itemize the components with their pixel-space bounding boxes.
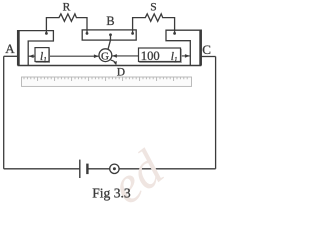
svg-text:B: B <box>106 14 114 28</box>
svg-text:A: A <box>5 41 15 56</box>
wire node A lead <box>4 55 18 57</box>
label box 100-l1 (shadow) <box>140 49 182 62</box>
wire right side down <box>215 57 217 169</box>
label box 100-l1 <box>139 48 181 62</box>
copper strip right (C end) <box>166 30 201 65</box>
resistor S <box>133 14 175 34</box>
wire key to bottom right <box>119 168 216 170</box>
copper strip middle (B) <box>82 30 136 40</box>
bridge wire AC <box>18 65 202 67</box>
wire bottom left to battery <box>4 168 80 170</box>
wire battery to key <box>87 168 109 170</box>
ruler scale <box>22 77 192 86</box>
svg-text:C: C <box>202 42 211 57</box>
dimension l1 line with arrows <box>28 55 98 57</box>
galvanometer G <box>99 49 112 62</box>
wire left side down <box>3 56 5 169</box>
svg-text:G: G <box>101 50 109 62</box>
label box l1 (shadow) <box>36 49 50 63</box>
svg-text:Fig 3.3: Fig 3.3 <box>92 186 131 201</box>
jockey arrow to node D <box>111 60 116 63</box>
svg-text:S: S <box>150 0 156 13</box>
battery cell <box>79 160 81 178</box>
svg-text:D: D <box>117 66 125 78</box>
label box l1 <box>35 48 49 62</box>
copper strip left (A end) <box>18 31 54 66</box>
wire node C lead <box>201 56 215 58</box>
wire B to galvanometer <box>108 35 111 50</box>
node B junction dot <box>109 33 112 36</box>
dimension 100-l1 line with arrows <box>112 55 190 57</box>
svg-text:100: 100 <box>141 49 160 63</box>
key (plug key) <box>110 164 119 173</box>
resistor R <box>46 14 87 34</box>
svg-text:R: R <box>63 0 71 13</box>
